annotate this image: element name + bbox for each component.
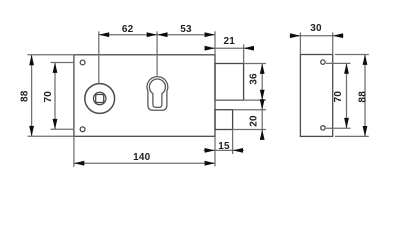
dim 53 right arrow — [205, 32, 215, 37]
dim 15 left arrow (outside) — [205, 148, 215, 153]
dim 21 left arrow (outside) — [205, 46, 215, 51]
dim 62 right arrow — [147, 32, 157, 37]
dim 62 left arrow — [99, 32, 109, 37]
dim 30 right arrow (outside) — [333, 33, 343, 38]
dim 88 left: bottom extension line — [28, 135, 74, 137]
side dim 70: top extension line — [326, 62, 351, 64]
svg-text:62: 62 — [122, 24, 134, 35]
dim 21 line — [205, 47, 255, 49]
dim 36 bottom extension line (latch bottom) — [215, 99, 266, 101]
side view plate outline — [300, 55, 332, 137]
dim 20 line — [261, 101, 263, 139]
side dim 70 top arrow — [344, 63, 349, 73]
dim 36 bottom arrow — [260, 90, 265, 100]
dim 30 right extension line — [332, 33, 334, 55]
knob boss outer circle — [85, 84, 115, 114]
dim 70 left top arrow — [53, 63, 58, 73]
dim 15 line — [204, 149, 245, 151]
dim 36 top extension line (latch top) — [244, 63, 266, 65]
dim 62 extension line (knob centre) — [98, 31, 100, 83]
dim 140 line — [74, 162, 215, 164]
side dim 88 top arrow — [363, 55, 368, 65]
dim 140 right arrow — [205, 161, 215, 166]
dim 88 left bottom arrow — [29, 126, 34, 136]
svg-text:88: 88 — [20, 90, 31, 102]
dim 70 left line — [54, 63, 56, 130]
dim 70 left: top extension line (upper screw hole) — [51, 62, 75, 64]
dim 53/21 extension line (case right edge up) — [214, 31, 216, 55]
dim 20 bottom extension line (dead bolt bottom) — [233, 129, 266, 131]
dim 140 left arrow — [74, 161, 84, 166]
side dim 88: top extension line — [335, 54, 369, 56]
euro cylinder profile outer contour — [147, 77, 168, 111]
svg-text:70: 70 — [333, 91, 344, 103]
svg-text:70: 70 — [43, 91, 54, 103]
dim 88 left line — [31, 55, 33, 137]
spindle square hole — [96, 95, 104, 103]
svg-text:21: 21 — [224, 36, 236, 47]
side dim 70: bottom extension line — [326, 127, 351, 129]
dim 21 extension line (latch right edge up) — [243, 44, 245, 63]
knob inner circle — [94, 92, 106, 104]
svg-text:30: 30 — [310, 23, 322, 34]
svg-text:88: 88 — [357, 91, 368, 103]
euro cylinder profile inner contour — [149, 79, 165, 107]
side dim 70 bottom arrow — [344, 118, 349, 128]
dim 62 line — [99, 34, 157, 36]
dim 36 line — [261, 64, 263, 101]
dim 36 top arrow — [260, 64, 265, 74]
side dim 88 line — [364, 55, 366, 137]
svg-text:36: 36 — [249, 73, 260, 85]
dim 20 bottom arrow — [260, 130, 265, 140]
dim 53 line — [157, 34, 215, 36]
dim 15 right arrow (outside) — [233, 148, 243, 153]
dim 15 right extension line (dead bolt tip down) — [232, 130, 234, 155]
dim 88 left top arrow — [29, 55, 34, 65]
dim 70 left bottom arrow — [53, 119, 58, 129]
svg-text:20: 20 — [249, 115, 260, 127]
dim 21 right arrow (outside) — [244, 46, 254, 51]
dim 30 line — [290, 35, 344, 37]
dim 62/53 shared extension line (cylinder centre) — [156, 31, 158, 75]
dim 30 left arrow (outside) — [290, 33, 300, 38]
dim 70 left: bottom extension line (lower screw hole) — [51, 128, 75, 130]
dim 15 left extension line (case right edge down) — [214, 136, 216, 166]
dim 20 top extension line (dead bolt top) — [233, 109, 266, 111]
svg-text:140: 140 — [133, 152, 151, 163]
side dim 70 line — [346, 63, 348, 128]
side dim 88 bottom arrow — [363, 126, 368, 136]
screw hole bottom-left — [80, 127, 85, 132]
latch bolt protrusion — [215, 64, 244, 101]
lock case outline (front view) — [74, 55, 215, 137]
dim 30 left extension line — [299, 33, 301, 55]
dim 20 top arrow — [260, 99, 265, 109]
side view screw hole bottom — [321, 126, 325, 130]
dim 53 left arrow — [157, 32, 167, 37]
svg-text:15: 15 — [218, 141, 230, 152]
svg-text:53: 53 — [180, 24, 192, 35]
dead bolt protrusion — [215, 110, 233, 130]
screw hole top-left — [80, 60, 85, 65]
side view screw hole top — [321, 60, 325, 64]
dim 140 left extension line — [73, 136, 75, 167]
side dim 88: bottom extension line — [335, 135, 369, 137]
dim 88 left: top extension line — [28, 54, 74, 56]
